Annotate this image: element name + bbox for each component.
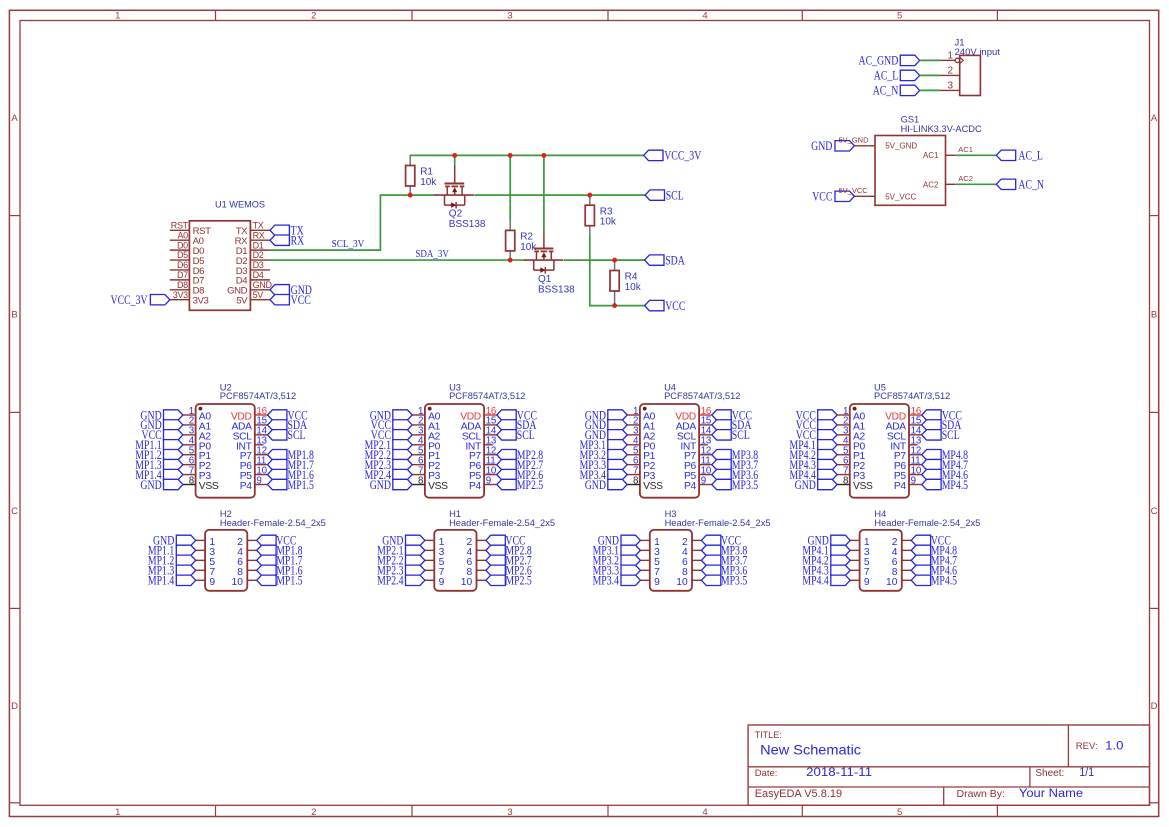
H1 pins (425, 540, 486, 580)
U3 right pins (484, 415, 497, 485)
GS1 pin AC2 (923, 181, 956, 190)
header H1 Header-Female-2.54_2x5 body (434, 509, 555, 591)
U5 pin names (853, 412, 907, 493)
net flag GND at H1 pin 1 (406, 535, 425, 545)
wire SCL_3V from U1 D1 (270, 195, 435, 250)
net flag MP4.6 at U5 pin 10 (922, 469, 941, 479)
H2 pin numbers (209, 537, 243, 588)
net flag MP4.8 at U5 pin 12 (922, 450, 941, 460)
wire R2 feed (509, 155, 511, 221)
net flag MP2.7 at U3 pin 11 (497, 459, 516, 469)
svg-text:D7: D7 (177, 270, 188, 280)
svg-text:Header-Female-2.54_2x5: Header-Female-2.54_2x5 (449, 518, 555, 528)
svg-text:D2: D2 (253, 250, 264, 260)
net flag MP3.7 at U4 pin 11 (712, 459, 731, 469)
net flag MP1.3 at U2 pin 6 (164, 459, 183, 469)
net flag GND at U4 pin 2 (608, 420, 627, 430)
U1 pin net labels (171, 221, 273, 300)
svg-text:PCF8574AT/3,512: PCF8574AT/3,512 (664, 391, 740, 401)
frame column ticks (216, 10, 998, 816)
net flag GND at H4 pin 1 (831, 535, 850, 545)
resistor R3 10k (585, 195, 617, 235)
svg-text:D3: D3 (253, 260, 264, 270)
svg-text:U1 WEMOS: U1 WEMOS (215, 200, 265, 210)
svg-text:VCC_3V: VCC_3V (111, 293, 148, 307)
U1 pin names (193, 226, 249, 306)
svg-text:SCL: SCL (288, 428, 306, 442)
U1 left pins (170, 230, 190, 299)
J1 pin 3 (941, 81, 960, 92)
svg-text:1/1: 1/1 (1079, 767, 1094, 779)
net flag MP3.1 at U4 pin 4 (608, 440, 627, 450)
net flag MP1.5 at H2 pin 10 (257, 575, 276, 585)
wire AC_GND to J1 (920, 59, 941, 61)
wire AC_N to J1 (920, 89, 941, 91)
svg-text:RX: RX (253, 230, 265, 240)
net flag MP3.8 at U4 pin 12 (712, 450, 731, 460)
net flag GND at GS1 (835, 141, 854, 151)
svg-text:AC1: AC1 (923, 151, 939, 160)
svg-text:MP3.5: MP3.5 (732, 478, 758, 492)
net flag SDA at U2 pin 15 (268, 420, 287, 430)
net flag MP3.8 at H3 pin 4 (701, 545, 720, 555)
net flag MP4.3 at U5 pin 6 (818, 459, 837, 469)
svg-text:9: 9 (439, 577, 445, 588)
svg-text:VSS: VSS (853, 481, 873, 492)
net flag SCL (645, 190, 664, 200)
svg-text:SCL: SCL (732, 428, 750, 442)
net flag MP3.1 at H3 pin 3 (621, 545, 640, 555)
svg-text:MP1.5: MP1.5 (276, 574, 302, 588)
svg-text:10k: 10k (420, 177, 437, 188)
net flag GND at H3 pin 1 (621, 535, 640, 545)
svg-text:MP3.4: MP3.4 (593, 574, 620, 588)
net flag MP3.3 at U4 pin 6 (608, 459, 627, 469)
svg-text:Your Name: Your Name (1019, 788, 1083, 800)
svg-text:3: 3 (507, 11, 512, 22)
net flag MP4.1 at U5 pin 4 (818, 440, 837, 450)
svg-text:GND: GND (140, 478, 161, 492)
svg-text:9: 9 (209, 577, 215, 588)
net flag SCL at U3 pin 14 (497, 430, 516, 440)
svg-text:5V_VCC: 5V_VCC (885, 192, 916, 201)
svg-text:Header-Female-2.54_2x5: Header-Female-2.54_2x5 (874, 518, 980, 528)
net flag MP3.3 at H3 pin 7 (621, 565, 640, 575)
wire AC_L to J1 (920, 74, 941, 76)
frame column labels (115, 11, 902, 818)
svg-text:2018-11-11: 2018-11-11 (806, 767, 872, 779)
net flag MP3.5 at H3 pin 10 (701, 575, 720, 585)
svg-text:5V_GND: 5V_GND (839, 135, 870, 144)
net flag SDA (645, 255, 664, 265)
H4 pins (850, 540, 911, 580)
net flag MP4.3 at H4 pin 7 (831, 565, 850, 575)
svg-text:PCF8574AT/3,512: PCF8574AT/3,512 (874, 391, 950, 401)
svg-text:AC_N: AC_N (873, 84, 899, 98)
resistor R2 10k (506, 221, 538, 260)
wire Q1 gate feed (543, 155, 545, 230)
net flag MP3.5 at U4 pin 9 (712, 479, 731, 489)
net flag MP4.6 at H4 pin 8 (911, 565, 930, 575)
H2 pins (196, 540, 257, 580)
svg-text:EasyEDA V5.8.19: EasyEDA V5.8.19 (755, 788, 842, 800)
svg-text:Drawn By:: Drawn By: (957, 788, 1005, 800)
junction R4-VCC (612, 303, 617, 308)
GS1 pin 5V_VCC (854, 192, 916, 201)
net flag VCC at U3 pin 16 (497, 410, 516, 420)
net flag MP1.2 at H2 pin 5 (176, 555, 195, 565)
svg-text:1: 1 (115, 807, 120, 818)
IC U4 PCF8574AT/3,512 body (640, 382, 741, 497)
net flag GND at U5 pin 8 (818, 479, 837, 489)
net flag MP2.5 at H1 pin 10 (486, 575, 505, 585)
net flag MP4.4 at H4 pin 9 (831, 575, 850, 585)
net flag MP3.2 at U4 pin 5 (608, 450, 627, 460)
net flag VCC at U2 pin 3 (164, 430, 183, 440)
svg-text:240V input: 240V input (955, 47, 1001, 58)
net flag MP4.7 at U5 pin 11 (922, 459, 941, 469)
net flag VCC at U5 pin 2 (818, 420, 837, 430)
net flag VCC bottom (645, 300, 664, 310)
svg-text:D: D (1151, 701, 1158, 712)
svg-text:D5: D5 (177, 250, 188, 260)
svg-text:5V: 5V (253, 290, 264, 300)
junction R2-SDA (508, 258, 513, 263)
transistor Q2 BSS138 (435, 165, 486, 230)
svg-text:AC_L: AC_L (874, 69, 899, 83)
net flag MP4.2 at U5 pin 5 (818, 450, 837, 460)
svg-text:New Schematic: New Schematic (760, 742, 861, 757)
svg-text:P4: P4 (240, 481, 253, 492)
svg-text:SDA_3V: SDA_3V (415, 248, 449, 260)
svg-text:MP1.4: MP1.4 (148, 574, 175, 588)
net flag MP4.8 at H4 pin 4 (911, 545, 930, 555)
net flag SCL at U2 pin 14 (268, 430, 287, 440)
svg-text:9: 9 (911, 475, 916, 486)
svg-text:10: 10 (676, 577, 688, 588)
net flag MP1.4 at H2 pin 9 (176, 575, 195, 585)
svg-text:4: 4 (702, 807, 707, 818)
net flag MP3.4 at U4 pin 7 (608, 469, 627, 479)
svg-text:8: 8 (633, 475, 639, 486)
svg-text:3V3: 3V3 (173, 290, 188, 300)
svg-text:9: 9 (486, 475, 491, 486)
net flag MP4.4 at U5 pin 7 (818, 469, 837, 479)
svg-text:RX: RX (291, 234, 305, 248)
svg-text:GS1: GS1 (901, 114, 920, 124)
net flag VCC at U4 pin 16 (712, 410, 731, 420)
net flag MP2.4 at H1 pin 9 (406, 575, 425, 585)
svg-text:PCF8574AT/3,512: PCF8574AT/3,512 (449, 391, 525, 401)
net flag MP1.7 at H2 pin 6 (257, 555, 276, 565)
svg-text:8: 8 (843, 475, 849, 486)
net flag AC_N at J1 (900, 85, 919, 95)
net flag MP2.7 at H1 pin 6 (486, 555, 505, 565)
U5 right pins (909, 415, 922, 485)
connector J1 240V input (955, 37, 1001, 95)
net flag MP4.5 at U5 pin 9 (922, 479, 941, 489)
net flag MP3.6 at H3 pin 8 (701, 565, 720, 575)
U2 pin numbers (189, 406, 268, 487)
svg-text:AC_N: AC_N (1018, 178, 1044, 192)
svg-text:MP4.5: MP4.5 (931, 574, 957, 588)
net flag MP1.6 at U2 pin 10 (268, 469, 287, 479)
H4 pin numbers (864, 537, 898, 588)
net flag GND at U1 (270, 285, 289, 295)
svg-text:3: 3 (507, 807, 512, 818)
U3 left pins (412, 415, 425, 485)
svg-text:GND: GND (795, 478, 816, 492)
svg-text:10: 10 (232, 577, 244, 588)
net flag VCC at U5 pin 3 (818, 430, 837, 440)
wire R3 to VCC net (590, 235, 645, 306)
wire SDA segment to flag (564, 259, 645, 261)
net flag MP3.4 at H3 pin 9 (621, 575, 640, 585)
net flag VCC at H1 pin 2 (486, 535, 505, 545)
net flag MP2.2 at U3 pin 5 (393, 450, 412, 460)
wire AC1 to flag (956, 154, 997, 156)
net flag MP2.3 at H1 pin 7 (406, 565, 425, 575)
svg-text:5: 5 (897, 11, 902, 22)
svg-text:HI-LINK3.3V-ACDC: HI-LINK3.3V-ACDC (901, 124, 982, 134)
svg-text:D8: D8 (177, 280, 188, 290)
net flag SCL at U4 pin 14 (712, 430, 731, 440)
net flag MP1.8 at H2 pin 4 (257, 545, 276, 555)
IC U5 PCF8574AT/3,512 body (850, 382, 951, 497)
U4 left pins (627, 415, 640, 485)
net flag SDA at U5 pin 15 (922, 420, 941, 430)
H1 pin numbers (439, 537, 473, 588)
net flag MP2.8 at U3 pin 12 (497, 450, 516, 460)
net flag VCC at U3 pin 3 (393, 430, 412, 440)
svg-text:P4: P4 (469, 481, 482, 492)
J1 pin 2 (941, 66, 960, 77)
IC U1 WEMOS body (189, 200, 265, 311)
resistor R1 10k (406, 155, 438, 195)
U4 pin names (643, 412, 697, 493)
svg-text:4: 4 (702, 11, 707, 22)
svg-text:TX: TX (253, 221, 264, 231)
net flag MP1.1 at H2 pin 3 (176, 545, 195, 555)
svg-text:A: A (1151, 113, 1158, 124)
svg-text:10: 10 (461, 577, 473, 588)
svg-text:D6: D6 (177, 260, 188, 270)
svg-text:10k: 10k (625, 282, 642, 293)
svg-text:VSS: VSS (428, 481, 448, 492)
net flag GND at H2 pin 1 (176, 535, 195, 545)
U5 pin numbers (843, 406, 922, 487)
svg-text:SCL: SCL (517, 428, 535, 442)
net flag MP4.5 at H4 pin 10 (911, 575, 930, 585)
net flag VCC at U1 5V (270, 294, 289, 304)
net flag SCL at U5 pin 14 (922, 430, 941, 440)
U2 right pins (255, 415, 268, 485)
svg-text:MP2.5: MP2.5 (517, 478, 543, 492)
GS1 pin 5V_GND (854, 142, 917, 151)
svg-text:5V: 5V (236, 295, 248, 306)
frame row labels (11, 113, 1158, 712)
IC U2 PCF8574AT/3,512 body (196, 382, 297, 497)
svg-text:TITLE:: TITLE: (755, 730, 782, 740)
svg-text:8: 8 (418, 475, 424, 486)
wire SDA_3V from U1 D2 (270, 259, 525, 261)
net flag GND at U4 pin 1 (608, 410, 627, 420)
net flag VCC_3V rail (644, 150, 663, 160)
svg-text:AC_GND: AC_GND (859, 54, 899, 68)
IC U3 PCF8574AT/3,512 body (425, 382, 526, 497)
svg-text:10k: 10k (600, 217, 617, 228)
svg-text:AC_L: AC_L (1018, 149, 1043, 163)
net flag MP4.1 at H4 pin 3 (831, 545, 850, 555)
svg-text:SDA: SDA (665, 253, 685, 267)
net flag MP3.7 at H3 pin 6 (701, 555, 720, 565)
net flag MP1.8 at U2 pin 12 (268, 450, 287, 460)
svg-text:Date:: Date: (755, 768, 778, 779)
svg-text:1: 1 (947, 51, 953, 62)
net flag MP2.3 at U3 pin 6 (393, 459, 412, 469)
U2 left pins (183, 415, 196, 485)
svg-text:2: 2 (311, 807, 316, 818)
net flag AC_L at GS1 (996, 150, 1015, 160)
net flag VCC at U2 pin 16 (268, 410, 287, 420)
net flag MP2.6 at U3 pin 10 (497, 469, 516, 479)
svg-text:5: 5 (897, 807, 902, 818)
svg-text:VCC_3V: VCC_3V (664, 149, 701, 163)
svg-text:9: 9 (701, 475, 706, 486)
junction rail-Q2gate (452, 153, 457, 158)
svg-text:GND: GND (253, 280, 273, 290)
svg-text:MP4.5: MP4.5 (942, 478, 968, 492)
svg-text:SCL: SCL (942, 428, 960, 442)
net flag MP1.3 at H2 pin 7 (176, 565, 195, 575)
svg-text:PCF8574AT/3,512: PCF8574AT/3,512 (220, 391, 296, 401)
svg-text:Header-Female-2.54_2x5: Header-Female-2.54_2x5 (220, 518, 326, 528)
junction R1-SCL (408, 193, 413, 198)
net flag MP1.2 at U2 pin 5 (164, 450, 183, 460)
svg-text:GND: GND (370, 478, 391, 492)
net flag VCC at U5 pin 1 (818, 410, 837, 420)
svg-text:2: 2 (311, 11, 316, 22)
svg-text:Sheet:: Sheet: (1035, 768, 1064, 779)
svg-text:P4: P4 (684, 481, 697, 492)
U4 right pins (699, 415, 712, 485)
net flag MP3.2 at H3 pin 5 (621, 555, 640, 565)
net flag MP4.7 at H4 pin 6 (911, 555, 930, 565)
net flag MP1.4 at U2 pin 7 (164, 469, 183, 479)
wire VCC_3V rail (410, 154, 644, 156)
svg-text:D1: D1 (253, 240, 264, 250)
net flag VCC at U5 pin 16 (922, 410, 941, 420)
junction R3-SCL (587, 193, 592, 198)
net flag MP2.2 at H1 pin 5 (406, 555, 425, 565)
svg-text:3V3: 3V3 (193, 295, 209, 306)
wire SCL segment to flag (475, 194, 645, 196)
svg-text:MP4.4: MP4.4 (802, 574, 829, 588)
U3 pin names (428, 412, 482, 493)
J1 pin 1 (941, 51, 964, 64)
net flag GND at U2 pin 8 (164, 479, 183, 489)
U2 pin names (199, 412, 253, 493)
module GS1 HI-LINK3.3V-ACDC body (875, 114, 982, 205)
junction rail-R2 (508, 153, 513, 158)
transistor Q1 BSS138 (524, 230, 575, 295)
net flag AC_N at GS1 (996, 179, 1015, 189)
net flag MP1.6 at H2 pin 8 (257, 565, 276, 575)
svg-text:2: 2 (947, 66, 953, 77)
svg-text:Header-Female-2.54_2x5: Header-Female-2.54_2x5 (665, 518, 771, 528)
svg-text:Q2: Q2 (449, 209, 463, 220)
net flag VCC_3V at U1 3V3 (150, 294, 169, 304)
net flag GND at U4 pin 3 (608, 430, 627, 440)
svg-text:P4: P4 (894, 481, 907, 492)
U3 pin numbers (418, 406, 497, 487)
net flag VCC at U3 pin 2 (393, 420, 412, 430)
svg-text:B: B (11, 309, 17, 320)
svg-text:9: 9 (654, 577, 660, 588)
svg-text:9: 9 (864, 577, 870, 588)
svg-text:BSS138: BSS138 (449, 219, 486, 230)
svg-text:9: 9 (256, 475, 261, 486)
net flag MP2.1 at U3 pin 4 (393, 440, 412, 450)
net flag SDA at U4 pin 15 (712, 420, 731, 430)
net flag VCC at H2 pin 2 (257, 535, 276, 545)
svg-text:VSS: VSS (643, 481, 663, 492)
svg-text:MP1.5: MP1.5 (288, 478, 314, 492)
svg-text:SCL_3V: SCL_3V (332, 238, 365, 250)
U4 pin numbers (633, 406, 712, 487)
net flag GND at U3 pin 1 (393, 410, 412, 420)
net flag MP2.1 at H1 pin 3 (406, 545, 425, 555)
net flag MP2.4 at U3 pin 7 (393, 469, 412, 479)
resistor R4 10k (610, 260, 642, 306)
header H2 Header-Female-2.54_2x5 body (205, 509, 326, 591)
svg-text:MP3.5: MP3.5 (721, 574, 747, 588)
svg-text:A0: A0 (177, 230, 188, 240)
net flag VCC at GS1 (835, 191, 854, 201)
svg-text:D: D (11, 701, 18, 712)
svg-text:C: C (11, 506, 18, 517)
svg-text:AC2: AC2 (923, 181, 939, 190)
svg-text:GND: GND (811, 139, 832, 153)
svg-text:C: C (1151, 506, 1158, 517)
svg-text:MP2.5: MP2.5 (505, 574, 531, 588)
svg-text:REV:: REV: (1076, 741, 1098, 752)
svg-text:A: A (11, 113, 18, 124)
net flag MP3.6 at U4 pin 10 (712, 469, 731, 479)
svg-text:AC2: AC2 (958, 174, 973, 183)
svg-text:D0: D0 (177, 240, 188, 250)
header H4 Header-Female-2.54_2x5 body (860, 509, 981, 591)
svg-text:1.0: 1.0 (1105, 741, 1123, 753)
svg-text:VCC: VCC (812, 190, 832, 204)
svg-text:AC1: AC1 (958, 145, 973, 154)
svg-text:10: 10 (886, 577, 898, 588)
net flag MP1.5 at U2 pin 9 (268, 479, 287, 489)
svg-text:RST: RST (171, 221, 189, 231)
junction R4-SDA (612, 258, 617, 263)
svg-text:VCC: VCC (291, 293, 311, 307)
net flag MP1.7 at U2 pin 11 (268, 459, 287, 469)
wire AC2 to flag (956, 183, 997, 185)
net flag TX (270, 225, 289, 235)
net flag SDA at U3 pin 15 (497, 420, 516, 430)
junction rail-Q1gate (541, 153, 546, 158)
svg-text:Q1: Q1 (538, 274, 552, 285)
svg-text:5V_GND: 5V_GND (885, 142, 917, 151)
svg-text:1: 1 (115, 11, 120, 22)
U5 left pins (837, 415, 850, 485)
svg-text:VSS: VSS (199, 481, 219, 492)
